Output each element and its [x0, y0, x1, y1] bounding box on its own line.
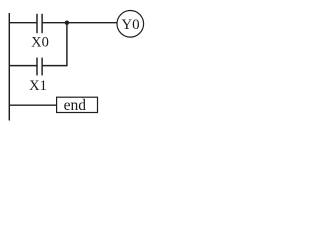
svg-text:Y0: Y0: [121, 17, 139, 33]
svg-text:end: end: [64, 97, 87, 114]
svg-text:X1: X1: [29, 78, 47, 94]
svg-text:X0: X0: [31, 35, 49, 51]
